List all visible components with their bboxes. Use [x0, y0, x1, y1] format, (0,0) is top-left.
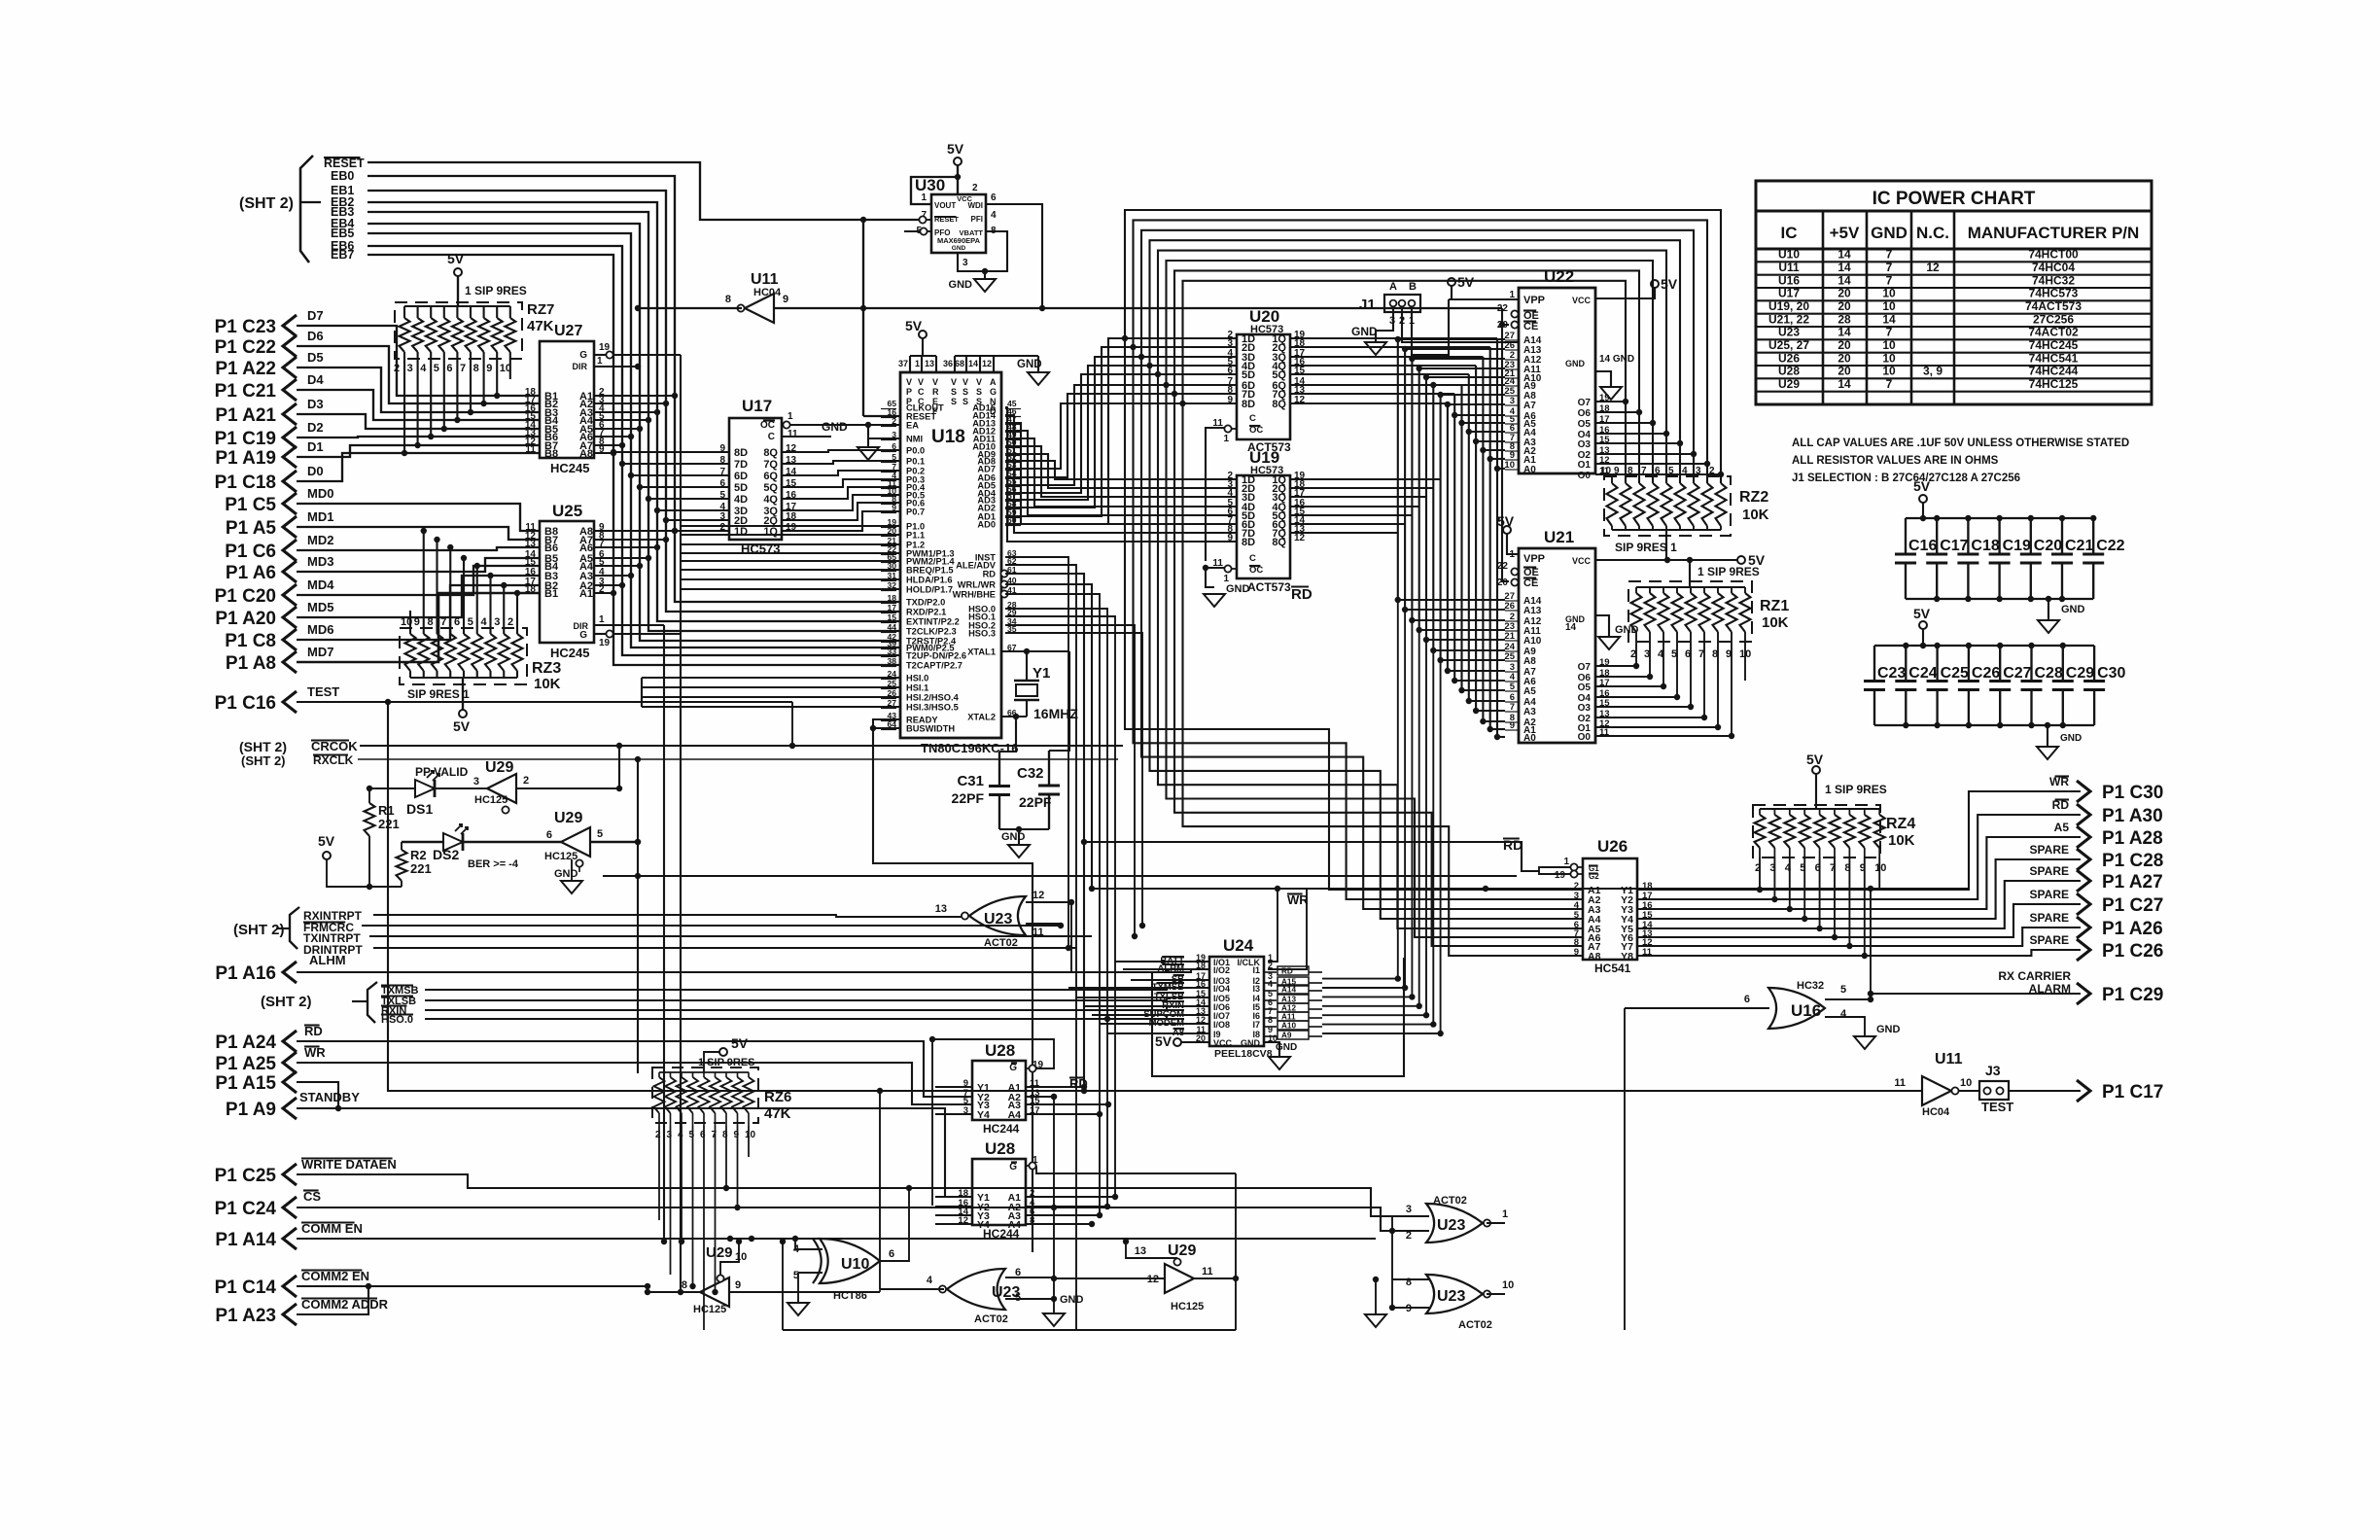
U29 ber enable — [578, 867, 580, 872]
svg-text:47K: 47K — [764, 1105, 791, 1122]
RZ6 resistor pin 9 — [732, 1077, 743, 1113]
svg-text:MAX690EPA: MAX690EPA — [937, 236, 981, 245]
svg-text:21: 21 — [1504, 631, 1515, 642]
RZ4 resistor pin 5 — [1800, 815, 1810, 848]
RZ4 resistor pin 10 — [1874, 815, 1885, 848]
svg-text:9: 9 — [486, 363, 492, 374]
U26 G2 pin — [1577, 873, 1583, 875]
NOR gate U23 ACT02 (bottom mid, facing left) — [947, 1269, 1005, 1310]
U17 4Q output wire to U18 — [782, 487, 900, 499]
svg-text:2: 2 — [972, 183, 978, 193]
svg-text:TXD/P2.0: TXD/P2.0 — [906, 598, 945, 608]
svg-text:A4: A4 — [1008, 1109, 1022, 1121]
svg-text:HCT86: HCT86 — [833, 1290, 867, 1302]
svg-text:V: V — [951, 377, 957, 387]
U30 VBATT loop to GND pin — [958, 231, 1007, 271]
wire D3 to U27 — [297, 414, 540, 429]
svg-text:5: 5 — [1015, 1292, 1021, 1304]
svg-text:4: 4 — [420, 363, 427, 374]
svg-text:4: 4 — [1268, 979, 1273, 989]
svg-text:C27: C27 — [2003, 665, 2031, 682]
svg-text:T2UP-DN/P2.6: T2UP-DN/P2.6 — [906, 651, 966, 661]
svg-text:RZ3: RZ3 — [532, 660, 561, 677]
capacitor C31 22PF — [999, 717, 1016, 752]
svg-text:U28: U28 — [985, 1041, 1015, 1060]
capacitor C16 — [1905, 518, 1907, 554]
svg-text:8: 8 — [473, 363, 479, 374]
wire U24 row feeds — [1108, 1005, 1209, 1007]
svg-text:STANDBY: STANDBY — [299, 1090, 360, 1104]
svg-text:U25: U25 — [552, 502, 582, 520]
svg-text:C31: C31 — [957, 773, 984, 789]
RZ3 common to 5V below — [462, 678, 464, 710]
wire HSO.3 — [1005, 633, 1142, 926]
output wire SPARE to P1 C28 — [1637, 859, 2081, 919]
svg-text:5: 5 — [689, 1130, 695, 1140]
vertical 905 — [879, 1091, 881, 1289]
svg-text:P1 C14: P1 C14 — [215, 1277, 277, 1298]
svg-text:O1: O1 — [1578, 460, 1592, 471]
U18 top pin 13 — [935, 356, 937, 372]
svg-text:RD: RD — [983, 570, 997, 579]
svg-text:9: 9 — [1227, 395, 1233, 405]
svg-text:10K: 10K — [1762, 614, 1789, 631]
RZ2 resistor pin 7 — [1648, 483, 1659, 526]
XOR gate U10 74HCT86 — [820, 1239, 880, 1283]
wire U18 P1 pin to bus — [681, 552, 900, 554]
RZ7 tap to U27 B2 row — [483, 352, 485, 403]
svg-text:PEEL18CV8: PEEL18CV8 — [1214, 1048, 1273, 1060]
svg-text:9: 9 — [1406, 1303, 1412, 1314]
svg-text:U22: U22 — [1544, 267, 1574, 286]
RZ3 tap to U25 B7 row — [436, 540, 437, 634]
svg-text:U29: U29 — [1778, 377, 1800, 391]
svg-text:5V: 5V — [1913, 606, 1931, 621]
svg-text:HSO.3: HSO.3 — [968, 629, 996, 639]
svg-text:S: S — [962, 397, 968, 406]
svg-text:MD0: MD0 — [307, 486, 333, 501]
address A5 wire — [1290, 384, 1462, 386]
RZ2 resistor pin 4 — [1689, 483, 1699, 526]
svg-text:D1: D1 — [307, 439, 324, 454]
svg-text:VCC: VCC — [1572, 556, 1592, 566]
svg-text:20: 20 — [1837, 287, 1851, 300]
U18 VSS rail to GND — [955, 355, 994, 357]
IC U17 74HC573 latch — [729, 418, 782, 540]
svg-text:1: 1 — [1223, 434, 1229, 444]
svg-text:10: 10 — [1882, 287, 1896, 300]
C31/C32 ground rail — [999, 828, 1049, 830]
address A12 extension to U24 — [1411, 620, 1413, 997]
svg-text:22: 22 — [1497, 303, 1509, 314]
U28 upper Y wire — [935, 1103, 972, 1105]
svg-text:RZ2: RZ2 — [1739, 489, 1768, 506]
svg-text:U26: U26 — [1778, 351, 1800, 365]
svg-text:5V: 5V — [731, 1035, 749, 1051]
svg-text:1: 1 — [787, 411, 793, 422]
ground J1 — [1365, 342, 1386, 355]
U23 botmid output — [880, 1288, 944, 1290]
svg-text:221: 221 — [378, 817, 400, 831]
RZ1 common to 5V rail — [1689, 560, 1691, 587]
svg-text:8: 8 — [1268, 1015, 1273, 1025]
RZ6 taps down — [658, 1126, 660, 1220]
U27 A6 wire to bus — [594, 436, 631, 437]
svg-text:IC: IC — [1781, 224, 1798, 242]
svg-text:C: C — [918, 387, 925, 397]
U25 A1 wire to bus — [594, 592, 613, 594]
svg-text:P1 C16: P1 C16 — [215, 693, 276, 714]
svg-text:VCC: VCC — [1213, 1038, 1233, 1048]
svg-text:7: 7 — [460, 363, 466, 374]
svg-text:C: C — [1249, 553, 1256, 564]
svg-text:HC125: HC125 — [544, 851, 577, 862]
svg-text:ACT02: ACT02 — [974, 1313, 1008, 1325]
svg-text:G: G — [579, 350, 587, 361]
address A3 wire — [1290, 365, 1476, 367]
U27 A8 wire to bus — [594, 452, 613, 454]
U17 2D input wire — [666, 519, 729, 521]
vertical 959 — [931, 1039, 933, 1206]
svg-text:5V: 5V — [447, 251, 465, 266]
svg-text:74ACT02: 74ACT02 — [2028, 326, 2079, 339]
svg-text:V: V — [962, 377, 968, 387]
svg-text:HC244: HC244 — [983, 1122, 1020, 1136]
svg-text:1: 1 — [915, 359, 920, 368]
wire D0 to U27 — [297, 453, 540, 481]
RZ2 resistor pin 8 — [1634, 483, 1645, 526]
RZ7 common rail to 5V — [404, 305, 510, 307]
svg-text:U24: U24 — [1223, 936, 1254, 955]
svg-text:4Q: 4Q — [763, 494, 778, 506]
svg-text:D2: D2 — [307, 420, 324, 435]
J3 output wire to P1 C17 — [2009, 1090, 2081, 1092]
svg-text:5D: 5D — [734, 482, 748, 494]
RZ3 resistor element pin 3 — [499, 634, 509, 671]
wire to U22/U21 CE — [1502, 308, 1509, 325]
U16 input wire — [1625, 1007, 1769, 1009]
capacitor C32 22PF — [1049, 651, 1069, 751]
U18 top pin 36 — [954, 356, 956, 372]
capacitor bank C23-C30 — [1874, 645, 2094, 647]
svg-text:14: 14 — [1837, 248, 1851, 262]
svg-text:C22: C22 — [2096, 538, 2124, 554]
svg-text:38: 38 — [887, 656, 896, 666]
svg-text:U10: U10 — [1778, 248, 1800, 262]
output wire SPARE to P1 C27 — [1637, 904, 2081, 937]
svg-text:(SHT 2): (SHT 2) — [233, 922, 285, 938]
svg-text:R2: R2 — [410, 848, 427, 862]
svg-text:P1 A9: P1 A9 — [226, 1100, 276, 1120]
RZ7 resistor element pin 7 — [470, 306, 472, 318]
svg-text:A: A — [1389, 281, 1397, 293]
svg-text:20: 20 — [1837, 299, 1851, 313]
U17 7D input wire — [622, 463, 729, 465]
AD0-AD7 bus staircase to U20 — [1005, 338, 1237, 524]
svg-text:10: 10 — [1882, 351, 1896, 365]
connector P1 A30 — [2077, 804, 2090, 825]
svg-text:V: V — [918, 377, 924, 387]
U10 input wires — [795, 1242, 822, 1249]
svg-text:U26: U26 — [1597, 837, 1627, 856]
svg-text:S: S — [976, 387, 982, 397]
power 5V U22 VPP — [1448, 278, 1455, 286]
U28 upper Y wire — [935, 1113, 972, 1115]
svg-text:4: 4 — [1840, 1008, 1847, 1020]
bottom rail — [783, 1329, 1236, 1331]
svg-text:3: 3 — [892, 430, 896, 439]
address A13 wire — [1290, 523, 1405, 525]
U25 A4 wire to bus — [594, 565, 640, 567]
svg-text:P1 C28: P1 C28 — [2102, 851, 2163, 871]
svg-text:5: 5 — [1840, 984, 1846, 996]
svg-text:10K: 10K — [1888, 832, 1915, 849]
svg-text:RX CARRIER: RX CARRIER — [1998, 969, 2071, 983]
svg-text:5V: 5V — [905, 318, 923, 333]
svg-text:I/O4: I/O4 — [1213, 984, 1230, 994]
address A9 extension to U24 — [1432, 650, 1434, 1025]
resistor R1 221 — [368, 788, 370, 803]
U16 output vertical — [1870, 889, 1872, 999]
U18 top pin 37 — [909, 356, 911, 372]
svg-text:VPP: VPP — [1523, 553, 1545, 565]
power 5V RZ6 — [719, 1048, 727, 1056]
svg-text:P1 A30: P1 A30 — [2102, 806, 2163, 826]
svg-text:GND: GND — [2060, 733, 2082, 744]
wire WR from P1 A25 — [297, 1063, 972, 1104]
svg-text:MD3: MD3 — [307, 554, 333, 569]
wire RD (CPU) — [1005, 574, 1084, 1091]
svg-text:HSI.2/HSO.4: HSI.2/HSO.4 — [906, 693, 960, 703]
U18 top pin 14 — [979, 356, 981, 372]
svg-text:GND: GND — [949, 279, 973, 291]
wire RESET vertical to U18 — [862, 220, 864, 416]
U28 upper Y wire — [935, 1096, 972, 1098]
svg-text:A0: A0 — [1523, 733, 1536, 744]
svg-text:GND: GND — [1241, 1038, 1261, 1048]
U18 top pin 12 — [993, 356, 995, 372]
wire BUSWIDTH — [873, 727, 900, 729]
svg-text:B8: B8 — [544, 448, 558, 460]
resistor network RZ4 10K — [1753, 805, 1880, 857]
RZ1 resistor pin 2 — [1631, 593, 1642, 632]
wire RD from P1 A24 — [297, 1041, 972, 1097]
svg-text:C18: C18 — [1971, 538, 1999, 554]
RZ4 resistor pin 8 — [1844, 815, 1855, 848]
svg-text:8D: 8D — [1242, 399, 1255, 410]
svg-text:8Q: 8Q — [763, 447, 778, 459]
svg-text:VCC: VCC — [957, 194, 972, 203]
ground U29 pair — [571, 859, 573, 881]
svg-text:3: 3 — [407, 363, 413, 374]
wire loop under U24 — [1152, 958, 1404, 1076]
wire MD6 to U25 — [297, 585, 540, 640]
RZ3 resistor element pin 10 — [405, 634, 416, 671]
svg-text:3: 3 — [473, 776, 479, 787]
U17 1Q output wire to U18 — [782, 511, 900, 531]
svg-text:16MHZ: 16MHZ — [1033, 706, 1078, 721]
svg-text:RESET: RESET — [324, 157, 365, 170]
address A0 wire — [1290, 337, 1497, 339]
wire D5 to U27 — [297, 367, 540, 412]
capacitor C17 — [1936, 518, 1938, 554]
svg-text:4: 4 — [991, 210, 997, 221]
U25 A3 wire to bus — [594, 575, 631, 577]
svg-text:J1: J1 — [1359, 297, 1376, 313]
svg-text:8: 8 — [682, 1279, 687, 1291]
svg-text:6: 6 — [991, 192, 997, 203]
U25 DIR pin — [594, 624, 664, 626]
svg-text:P1 C20: P1 C20 — [215, 586, 276, 607]
IC U20 74ACT573 latch — [1237, 334, 1290, 439]
connector P1 A27 — [2077, 870, 2090, 892]
svg-text:TN80C196KC-16: TN80C196KC-16 — [921, 741, 1018, 755]
wire MD4 to U25 — [297, 566, 540, 595]
svg-text:25: 25 — [1504, 651, 1515, 662]
svg-text:1 SIP 9RES: 1 SIP 9RES — [698, 1057, 755, 1068]
svg-text:CE: CE — [1523, 321, 1538, 332]
svg-text:U23: U23 — [1437, 1288, 1465, 1305]
U28 lower Y wire — [935, 1223, 972, 1225]
svg-text:GND: GND — [1351, 325, 1378, 338]
svg-text:C28: C28 — [2035, 665, 2063, 682]
svg-text:A8: A8 — [1588, 951, 1601, 962]
wire TEST long to U11 gate — [388, 702, 1922, 1091]
wire U18 P1 pin to bus — [681, 560, 900, 562]
svg-text:O5: O5 — [1578, 682, 1592, 693]
svg-text:PP VALID: PP VALID — [415, 765, 469, 779]
RZ2 resistor pin 10 — [1607, 483, 1618, 526]
address A6 wire — [1290, 393, 1454, 395]
svg-text:2: 2 — [523, 775, 529, 787]
IC U26 74HC541 buffer — [1583, 858, 1637, 960]
U28 lower A wire — [1026, 1206, 1107, 1207]
svg-text:19: 19 — [1555, 870, 1566, 881]
svg-text:74HC245: 74HC245 — [2029, 338, 2079, 352]
wire ALHM to U24 — [297, 969, 1209, 972]
svg-text:9: 9 — [1574, 947, 1579, 958]
bus vertical 637 (CRCOK to U29) — [618, 746, 620, 788]
RZ7 tap to U27 B6 row — [430, 352, 432, 437]
svg-text:A7: A7 — [1523, 401, 1536, 411]
address A8 extension to U24 — [1440, 660, 1442, 1033]
svg-text:J1 SELECTION : B 27C64/27C128: J1 SELECTION : B 27C64/27C128 A 27C256 — [1792, 472, 2020, 484]
svg-text:9: 9 — [783, 294, 788, 305]
svg-text:SPARE: SPARE — [2030, 843, 2069, 857]
wire EB4 — [367, 224, 900, 641]
connector P1 C27 — [2077, 893, 2090, 915]
capacitor C30 — [2093, 646, 2095, 682]
svg-text:1: 1 — [1563, 857, 1569, 867]
svg-text:5V: 5V — [453, 718, 471, 734]
RZ3 bottom common rail — [410, 677, 517, 679]
svg-text:HSO.0: HSO.0 — [381, 1014, 413, 1026]
svg-text:14: 14 — [1837, 261, 1851, 274]
svg-text:I7: I7 — [1252, 1020, 1260, 1030]
AD8-AD15 bus staircase to U19 — [1005, 461, 1237, 479]
svg-text:74HC32: 74HC32 — [2032, 273, 2075, 287]
U26 G1 pin — [1577, 866, 1583, 868]
U25 A6 wire to bus — [594, 546, 657, 548]
RZ4 common to 5V — [1815, 774, 1817, 809]
IC U28 74HC244 buffer (lower half) — [972, 1159, 1026, 1225]
svg-text:5: 5 — [892, 452, 896, 462]
svg-text:7: 7 — [1510, 702, 1515, 713]
svg-text:2: 2 — [507, 616, 513, 628]
OR gate U16 74HC32 — [1768, 988, 1825, 1029]
svg-text:12: 12 — [1926, 261, 1940, 274]
svg-text:14: 14 — [1837, 273, 1851, 287]
svg-text:1: 1 — [599, 614, 605, 625]
svg-text:D6: D6 — [307, 329, 324, 343]
svg-text:10: 10 — [1874, 862, 1886, 874]
svg-text:SIP 9RES 1: SIP 9RES 1 — [1615, 541, 1677, 554]
wire DS2 — [402, 841, 443, 844]
svg-text:20: 20 — [1497, 320, 1509, 331]
wire from U16 to P1 C29 (RX CARRIER) — [1868, 991, 1873, 997]
U28 lower Y wire — [935, 1196, 972, 1198]
RZ1 resistor pin 5 — [1672, 593, 1683, 632]
ground U18 VSS — [1028, 372, 1049, 385]
U28 lower Y wire — [935, 1214, 972, 1216]
svg-text:HC125: HC125 — [693, 1304, 726, 1315]
RZ2 resistor pin 6 — [1662, 483, 1672, 526]
ground U24 — [1269, 1057, 1290, 1069]
svg-text:SPARE: SPARE — [2030, 888, 2069, 901]
svg-text:13: 13 — [925, 359, 934, 368]
IC U24 PEEL18CV8 PLD — [1209, 957, 1264, 1046]
svg-text:G: G — [990, 387, 997, 397]
svg-text:R1: R1 — [378, 803, 395, 818]
svg-text:P1.1: P1.1 — [906, 531, 925, 541]
U29 ber input wire — [590, 841, 638, 844]
wire U18 P1 pin to bus — [681, 588, 900, 590]
svg-text:A8: A8 — [1523, 656, 1536, 667]
power 5V U22 — [1651, 280, 1659, 288]
ground U21 — [1598, 637, 1620, 649]
capacitor C25 — [1936, 646, 1938, 682]
svg-text:C25: C25 — [1941, 665, 1969, 682]
RZ3 resistor element pin 2 — [512, 634, 523, 671]
RZ4 resistor pin 7 — [1830, 815, 1840, 848]
IC U22 27C256 EPROM — [1519, 288, 1595, 473]
U21 data output wires — [1595, 665, 1636, 667]
svg-text:HSI.1: HSI.1 — [906, 683, 928, 693]
svg-text:P1 C23: P1 C23 — [215, 317, 276, 337]
svg-text:P1 C8: P1 C8 — [225, 631, 276, 651]
svg-text:U23: U23 — [1778, 326, 1800, 339]
address A12 wire — [1290, 514, 1412, 516]
svg-text:P1 A21: P1 A21 — [215, 405, 276, 426]
U22 VCC wire — [1595, 288, 1655, 298]
svg-text:37: 37 — [898, 359, 908, 368]
svg-text:1Q: 1Q — [763, 526, 778, 538]
svg-text:5Q: 5Q — [763, 482, 778, 494]
RZ6 resistor pin 8 — [721, 1077, 732, 1113]
wire EB2 — [367, 202, 900, 621]
svg-text:P1 C24: P1 C24 — [215, 1199, 277, 1219]
svg-text:5V: 5V — [1806, 752, 1824, 767]
resistor network RZ6 47K — [652, 1067, 758, 1123]
svg-text:SPARE: SPARE — [2030, 933, 2069, 947]
RZ3 resistor element pin 4 — [485, 634, 496, 671]
svg-text:A10: A10 — [1523, 636, 1542, 647]
RZ7 tap to U27 B5 row — [443, 352, 445, 429]
svg-text:8Q: 8Q — [1272, 537, 1286, 548]
svg-text:P0.0: P0.0 — [906, 446, 925, 456]
wire U18 P1 pin to bus — [681, 534, 900, 536]
ground cap bank 2 — [2045, 722, 2050, 728]
